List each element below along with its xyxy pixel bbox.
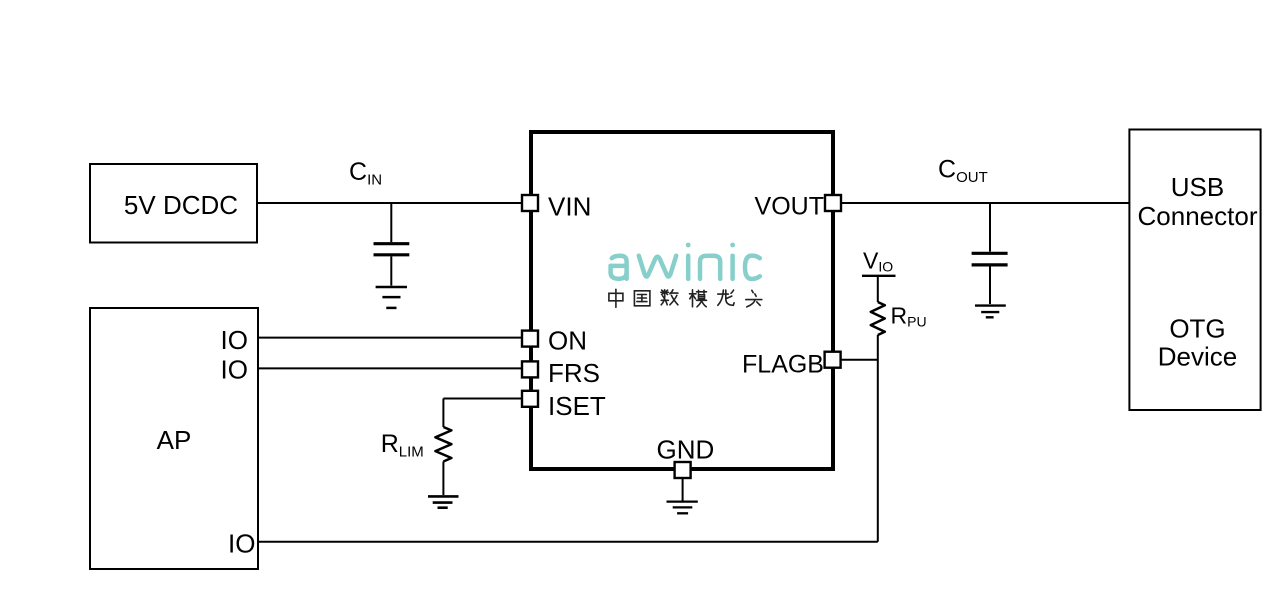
pin FLAGB bbox=[825, 352, 841, 368]
svg-text:USB: USB bbox=[1171, 172, 1224, 202]
wire VOUT to USB connector bbox=[842, 202, 1129, 204]
capacitor CIN bbox=[374, 203, 410, 286]
svg-text:ON: ON bbox=[548, 326, 587, 356]
ground (COUT) bbox=[975, 306, 1006, 318]
char tou bbox=[746, 290, 762, 307]
svg-text:AP: AP bbox=[157, 425, 192, 455]
wire RLIM to ISET bbox=[443, 398, 521, 400]
wire FLAGB to RPU node bbox=[842, 359, 878, 361]
char mo bbox=[690, 290, 707, 307]
pin ISET bbox=[522, 391, 538, 407]
resistor RLIM bbox=[435, 399, 451, 496]
svg-text:IO: IO bbox=[221, 355, 248, 385]
svg-text:Device: Device bbox=[1158, 342, 1237, 372]
svg-text:FLAGB: FLAGB bbox=[742, 350, 824, 378]
IC U1 body bbox=[531, 132, 833, 469]
char guo bbox=[634, 291, 650, 306]
pin ON bbox=[522, 331, 538, 347]
tagline chinese characters bbox=[609, 289, 762, 307]
pin VOUT bbox=[825, 195, 841, 211]
wire AP IO to ON bbox=[258, 337, 522, 339]
awinic logo bbox=[611, 256, 760, 279]
char zhong bbox=[609, 289, 623, 307]
svg-text:Connector: Connector bbox=[1138, 201, 1258, 231]
wire 5V DCDC to VIN bbox=[257, 202, 521, 204]
pin FRS bbox=[522, 361, 538, 377]
resistor RPU bbox=[871, 277, 885, 542]
awinic logo i-dots bbox=[686, 243, 735, 248]
svg-text:FRS: FRS bbox=[548, 358, 600, 388]
svg-text:IO: IO bbox=[221, 325, 248, 355]
block AP bbox=[90, 308, 258, 569]
pin VIN bbox=[522, 195, 538, 211]
wire AP IO to FLAGB node (bottom) bbox=[258, 541, 878, 543]
ground (RLIM) bbox=[428, 496, 459, 507]
block USB Connector / OTG Device bbox=[1129, 130, 1260, 411]
svg-text:OTG: OTG bbox=[1169, 314, 1225, 344]
block 5V DCDC bbox=[90, 164, 257, 243]
capacitor COUT bbox=[972, 203, 1008, 304]
ground (GND pin) bbox=[667, 479, 698, 513]
svg-text:VIN: VIN bbox=[548, 192, 591, 222]
svg-text:ISET: ISET bbox=[548, 391, 606, 421]
svg-text:GND: GND bbox=[657, 435, 715, 465]
wire AP IO to FRS bbox=[258, 367, 522, 369]
char shu bbox=[661, 290, 678, 305]
svg-text:VOUT: VOUT bbox=[755, 193, 824, 221]
ground (CIN) bbox=[376, 287, 407, 308]
char long bbox=[718, 290, 734, 305]
pin GND bbox=[675, 462, 691, 478]
svg-text:IO: IO bbox=[228, 529, 255, 559]
net VIO bbox=[862, 247, 896, 276]
svg-text:5V DCDC: 5V DCDC bbox=[124, 190, 238, 220]
